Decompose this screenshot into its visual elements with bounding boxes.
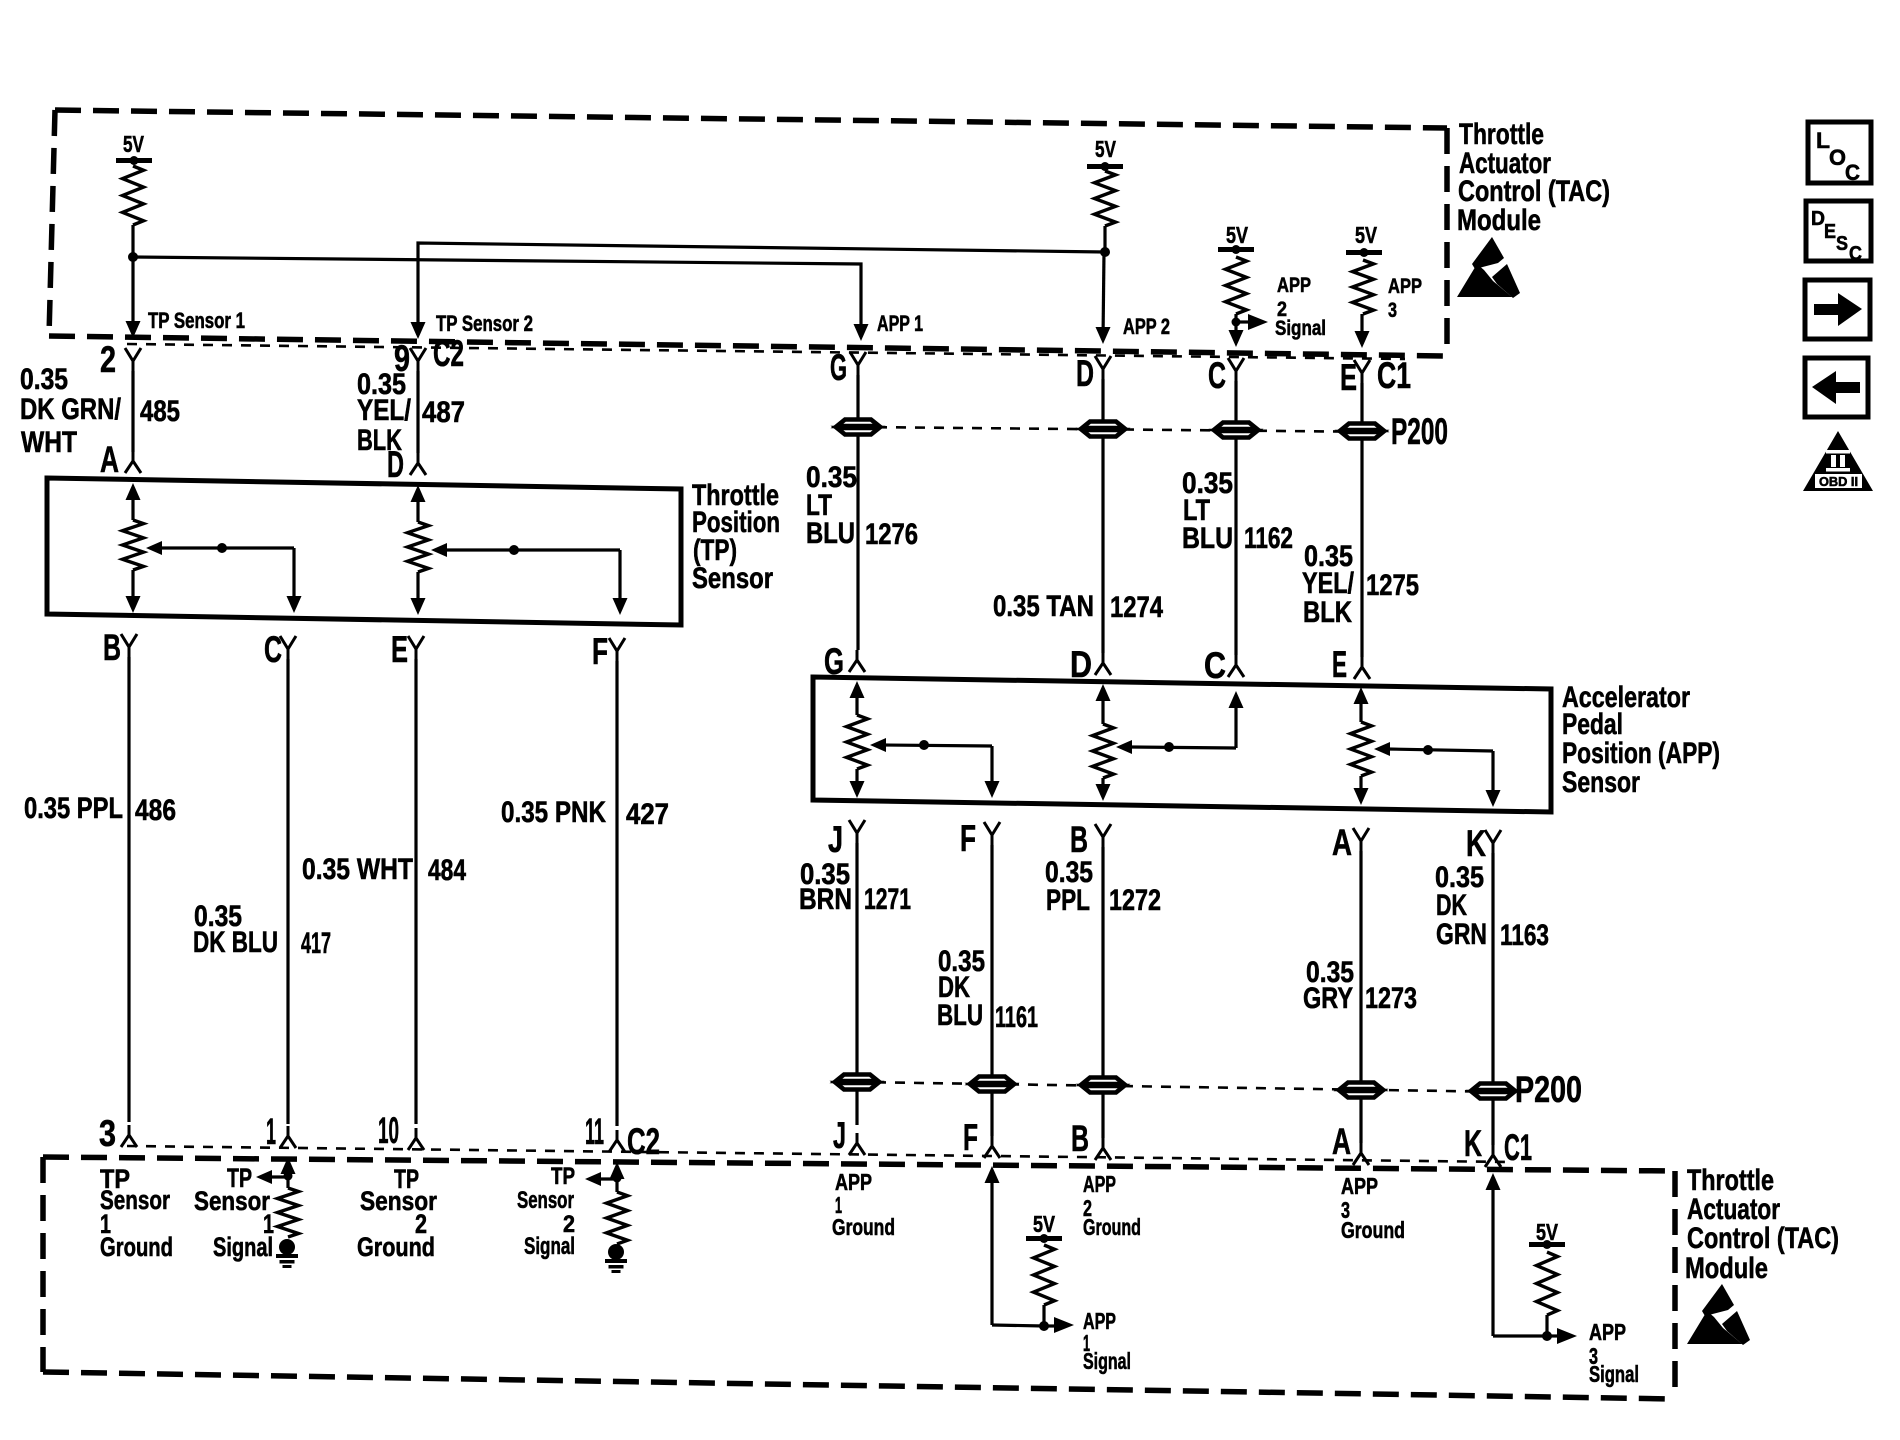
svg-text:Signal: Signal [1275, 317, 1326, 340]
pin G connector (APP box top) [824, 641, 865, 682]
svg-text:0.35 PNK: 0.35 PNK [501, 796, 606, 829]
svg-text:1272: 1272 [1109, 884, 1161, 917]
arrow into pin F (APP1 signal) [985, 1166, 1000, 1325]
svg-text:0.35 TAN: 0.35 TAN [993, 590, 1094, 623]
pin 11 connector (bottom) [585, 1111, 625, 1152]
wire junction to TP Sensor 1 output [131, 257, 134, 334]
svg-text:Module: Module [1685, 1252, 1768, 1285]
Throttle Position (TP) Sensor box [47, 478, 681, 625]
resistor TAC internal APP 1 signal [1034, 1245, 1055, 1305]
svg-text:Control (TAC): Control (TAC) [1687, 1222, 1839, 1255]
svg-text:485: 485 [140, 395, 180, 428]
wire pin E to P200 [1360, 383, 1363, 424]
ESD sensitivity symbol (top module) [1457, 237, 1520, 298]
wiper TP sensor 1 (to C) [146, 541, 302, 613]
resistor TAC internal TP sensor 2 signal [607, 1192, 628, 1244]
label wire 0.35 YEL/BLK [357, 368, 412, 457]
svg-text:OBD II: OBD II [1819, 474, 1858, 489]
arrow APP 2 signal into connector [1229, 330, 1244, 347]
label TP Sensor 2 Signal [517, 1163, 575, 1260]
label wire 0.35 LT BLU (C) [1182, 467, 1233, 555]
svg-text:Ground: Ground [100, 1232, 173, 1262]
svg-text:487: 487 [422, 396, 465, 429]
arrow to TP Sensor 2 Signal label [585, 1172, 617, 1186]
arrow to APP 1 Signal label [1044, 1317, 1074, 1333]
wire APP1 signal to junction [992, 1325, 1044, 1326]
pin 9 connector (TP sensor 2) [394, 338, 426, 379]
svg-text:A: A [1332, 822, 1352, 863]
junction TP1 signal [284, 1172, 293, 1181]
wire APP3 into connector [1360, 314, 1363, 344]
svg-text:1161: 1161 [995, 1001, 1038, 1034]
pin F connector (bottom) [963, 1117, 1000, 1158]
icon DESC box [1806, 201, 1871, 265]
svg-text:APP: APP [1341, 1173, 1378, 1199]
pin E connector (APP box top) [1332, 644, 1370, 685]
wiper APP 3 (to K) [1374, 742, 1501, 807]
label wire 0.35 DK GRN [1435, 861, 1487, 951]
wire pin G to P200 [856, 375, 859, 420]
label Throttle Position (TP) Sensor [692, 479, 780, 595]
svg-text:C: C [1849, 243, 1862, 265]
wire APP3 signal to junction [1493, 1334, 1547, 1337]
P200 pass-through (APP2 D) [1082, 422, 1124, 429]
svg-text:A: A [1332, 1121, 1351, 1162]
label wire 0.35 DK BLU (F) [937, 945, 985, 1032]
arrow APP 3 into connector [1355, 331, 1370, 348]
wire TP C to pin 1 [286, 659, 289, 1124]
svg-text:1162: 1162 [1244, 522, 1293, 555]
5V supply (TP sensor 2 / APP 2 feed) [1087, 136, 1123, 171]
svg-text:C: C [1204, 645, 1226, 686]
wire resistor to APP3 signal junction [1545, 1315, 1548, 1336]
svg-text:S: S [1836, 233, 1848, 255]
svg-text:1273: 1273 [1365, 982, 1417, 1015]
potentiometer APP 3 (E-A) [1351, 687, 1372, 805]
svg-text:Sensor: Sensor [194, 1186, 270, 1216]
svg-text:GRN: GRN [1436, 918, 1487, 951]
wire TP E to pin 10 [414, 659, 417, 1124]
ground (TP sensor 1 signal) [279, 1239, 295, 1255]
svg-text:0.35 PPL: 0.35 PPL [24, 792, 123, 825]
5V supply (APP 2 signal) [1218, 222, 1254, 254]
wire pin2 to TP pin A [131, 371, 134, 452]
svg-text:APP: APP [1589, 1319, 1626, 1345]
ESD sensitivity symbol (bottom module) [1687, 1284, 1750, 1345]
label APP 3 Signal [1589, 1319, 1639, 1387]
label Accelerator Pedal Position (APP) Sensor [1562, 681, 1720, 799]
pin J connector (APP box bottom) [828, 819, 865, 860]
P200 pass-through (APP2 sig C) [1215, 423, 1257, 430]
wire APP B to P200 [1101, 847, 1104, 1077]
label APP 1 Signal [1083, 1308, 1131, 1374]
junction APP1 signal [1039, 1321, 1049, 1331]
label APP 3 [1388, 275, 1422, 322]
pin 10 connector (bottom) [378, 1110, 424, 1151]
svg-text:Ground: Ground [1341, 1217, 1405, 1243]
svg-text:C: C [1845, 160, 1860, 185]
connector P200 dashed line (bottom) [857, 1082, 1512, 1092]
icon back arrow box [1805, 358, 1868, 417]
label Throttle Actuator Control (TAC) Module (top) [1457, 118, 1610, 237]
pin C connector (TP sensor) [264, 629, 296, 670]
label wire 0.35 PPL (B) [1045, 856, 1093, 917]
wire APP K to P200 [1491, 853, 1494, 1083]
pin D connector (TP sensor top) [387, 444, 426, 485]
resistor TAC internal pull-up TP/APP 2 [1095, 171, 1116, 226]
label TP Sensor 2 Ground [357, 1164, 437, 1262]
pin B connector (TP sensor) [103, 627, 137, 668]
svg-text:WHT: WHT [21, 426, 77, 459]
potentiometer TP sensor 1 (A-B) [123, 483, 144, 613]
svg-text:11: 11 [585, 1111, 604, 1152]
label wire 0.35 DK BLU [193, 900, 278, 959]
svg-text:GRY: GRY [1303, 982, 1353, 1015]
wire resistor to APP1 signal junction [1042, 1305, 1045, 1326]
wire TP B to pin 3 [127, 657, 130, 1122]
svg-text:5V: 5V [1033, 1211, 1056, 1237]
svg-text:Ground: Ground [1083, 1214, 1141, 1240]
5V supply (APP 3 signal, bottom) [1529, 1219, 1565, 1249]
5V supply (TP sensor 1 feed) [116, 131, 152, 165]
label APP 3 Ground [1341, 1173, 1405, 1243]
svg-text:Signal: Signal [524, 1233, 575, 1260]
svg-text:E: E [391, 629, 408, 670]
wire junction to APP 2 output [1103, 252, 1104, 340]
svg-text:0.35: 0.35 [20, 363, 68, 396]
icon forward arrow box [1805, 280, 1870, 339]
svg-text:417: 417 [301, 927, 331, 960]
arrow APP 1 into connector [854, 324, 869, 341]
svg-text:E: E [1824, 221, 1836, 243]
label wire 0.35 GRY [1303, 956, 1354, 1015]
svg-text:A: A [100, 439, 119, 480]
P200 pass-through (APP1 G) [837, 420, 879, 427]
svg-text:Signal: Signal [1083, 1348, 1131, 1374]
resistor TAC internal APP 3 signal [1353, 260, 1374, 314]
svg-text:C1: C1 [1377, 355, 1411, 396]
svg-text:B: B [1071, 1118, 1089, 1159]
svg-text:F: F [963, 1117, 978, 1158]
pin A connector (bottom) [1332, 1121, 1369, 1165]
wire APP F to P200 [990, 845, 993, 1076]
wire P200 to pin K [1491, 1099, 1494, 1145]
P200 pass-through (K) [1472, 1084, 1514, 1091]
wire 5V-1 to junction [131, 225, 134, 257]
svg-text:427: 427 [626, 798, 669, 831]
pin B connector (bottom) [1071, 1118, 1111, 1160]
pin C connector (APP box top) [1204, 645, 1244, 686]
potentiometer APP 1 (G-J) [847, 681, 868, 798]
TAC module bottom dashed box [43, 1157, 1675, 1399]
wire P200 to pin B [1101, 1093, 1104, 1138]
junction TP2 signal [613, 1174, 622, 1183]
resistor TAC internal TP sensor 1 signal [278, 1188, 299, 1237]
pin 3 connector (bottom) [99, 1113, 137, 1154]
arrow to TP Sensor 1 Signal label [256, 1170, 288, 1184]
TAC module top dashed box (Throttle Actuator Control) [49, 110, 1447, 356]
pin K connector (APP box bottom) [1466, 823, 1501, 864]
svg-text:1163: 1163 [1500, 919, 1549, 952]
svg-text:TP: TP [551, 1163, 575, 1190]
resistor TAC internal pull-up TP sensor 1 [123, 166, 144, 225]
wire P200 to pin A [1359, 1098, 1362, 1143]
pin B connector (APP box bottom) [1070, 819, 1111, 860]
svg-text:Ground: Ground [357, 1232, 435, 1262]
svg-text:Sensor: Sensor [517, 1187, 574, 1214]
svg-text:2: 2 [100, 339, 116, 380]
label Throttle Actuator Control (TAC) Module (bottom) [1685, 1164, 1839, 1285]
svg-text:3: 3 [99, 1113, 116, 1154]
svg-text:Module: Module [1457, 204, 1541, 237]
junction APP2 signal [1232, 318, 1241, 327]
svg-text:K: K [1466, 823, 1486, 864]
wire P200 to pin J [855, 1090, 858, 1125]
wire P200 to APP pin C [1234, 438, 1237, 655]
svg-text:APP: APP [1277, 274, 1311, 297]
wire TP F to pin 11 [615, 661, 618, 1126]
wire 5V bus to TP sensor 2 (horizontal) [418, 243, 1105, 335]
svg-text:BLU: BLU [806, 517, 855, 550]
P200 pass-through (APP3 E) [1341, 424, 1383, 431]
potentiometer TP sensor 2 (D-E) [408, 485, 429, 615]
svg-text:O: O [1829, 145, 1846, 170]
label wire 0.35 BRN [799, 858, 852, 916]
arrow to APP 2 Signal label [1236, 314, 1268, 330]
svg-text:C2: C2 [627, 1121, 660, 1162]
wiper APP 1 (to F) [870, 738, 1000, 798]
svg-text:G: G [824, 641, 844, 682]
svg-text:1: 1 [266, 1111, 276, 1152]
svg-text:DK GRN/: DK GRN/ [20, 393, 122, 426]
svg-text:PPL: PPL [1046, 884, 1090, 917]
pin J connector (bottom) [833, 1115, 865, 1156]
resistor TAC internal APP 2 signal [1226, 257, 1247, 314]
wire P200 to APP pin G [856, 435, 859, 650]
svg-text:APP: APP [1083, 1171, 1116, 1197]
svg-text:Signal: Signal [213, 1232, 273, 1262]
svg-text:F: F [592, 631, 608, 672]
svg-text:B: B [1070, 819, 1088, 860]
svg-text:BRN: BRN [799, 883, 852, 916]
svg-text:E: E [1332, 644, 1347, 685]
pin F connector (TP sensor) [592, 631, 625, 672]
svg-text:5V: 5V [1226, 222, 1249, 248]
svg-text:J: J [828, 819, 843, 860]
wire P200 to APP pin E [1360, 439, 1363, 657]
label APP 1 Ground [832, 1169, 895, 1240]
svg-text:5V: 5V [123, 131, 144, 157]
junction APP3 signal [1542, 1331, 1552, 1341]
svg-text:5V: 5V [1355, 222, 1378, 248]
P200 pass-through (F) [971, 1077, 1013, 1084]
svg-text:YEL/: YEL/ [357, 394, 412, 427]
svg-text:Sensor: Sensor [1562, 766, 1640, 799]
svg-text:10: 10 [378, 1110, 399, 1151]
arrow into pin K (APP3 signal) [1486, 1173, 1501, 1336]
arrow to APP 3 Signal label [1547, 1328, 1577, 1344]
svg-text:0.35 WHT: 0.35 WHT [302, 853, 413, 886]
svg-text:Ground: Ground [832, 1214, 895, 1240]
svg-text:486: 486 [135, 794, 176, 827]
wire pin D to P200 [1101, 379, 1104, 422]
potentiometer APP 2 (D-B) [1093, 684, 1114, 801]
svg-text:C: C [1208, 355, 1226, 396]
svg-text:L: L [1816, 128, 1830, 153]
label APP 2 Signal [1275, 274, 1326, 340]
wiper APP 2 (to C) [1116, 691, 1244, 754]
pin A connector (APP box bottom) [1332, 822, 1369, 863]
svg-text:P200: P200 [1515, 1069, 1582, 1110]
svg-text:P200: P200 [1391, 411, 1448, 452]
svg-text:APP 1: APP 1 [877, 311, 923, 336]
svg-text:TP Sensor 1: TP Sensor 1 [148, 308, 245, 333]
svg-text:BLK: BLK [1303, 596, 1352, 629]
P200 pass-through (A) [1340, 1083, 1382, 1090]
5V supply (APP 3 signal) [1346, 222, 1382, 257]
pin D connector (APP box top) [1070, 644, 1111, 685]
svg-text:DK BLU: DK BLU [193, 926, 278, 959]
pin C connector (TAC, APP2 signal) [1208, 355, 1244, 396]
svg-text:Sensor: Sensor [692, 562, 773, 595]
pin F connector (APP box bottom) [960, 818, 1000, 859]
svg-text:D: D [1070, 644, 1092, 685]
svg-text:3: 3 [1388, 299, 1397, 322]
wire APP J to P200 [855, 843, 858, 1074]
svg-text:D: D [387, 444, 404, 485]
svg-text:C1: C1 [1504, 1127, 1532, 1168]
svg-text:APP 2: APP 2 [1123, 314, 1170, 339]
pin E connector (TP sensor) [391, 629, 424, 670]
pin 2 connector (TP sensor 1) [100, 339, 141, 380]
svg-text:K: K [1464, 1123, 1482, 1164]
resistor TAC internal APP 3 signal [1537, 1252, 1558, 1315]
svg-text:D: D [1076, 353, 1094, 394]
pin G connector (TAC, APP1) [830, 347, 866, 388]
svg-text:484: 484 [428, 854, 466, 887]
icon OBD II triangle [1803, 431, 1873, 491]
svg-text:J: J [833, 1115, 846, 1156]
svg-text:1275: 1275 [1366, 569, 1419, 602]
pin K connector (bottom) [1464, 1123, 1501, 1167]
pin D connector (TAC, APP2) [1076, 353, 1111, 394]
Accelerator Pedal Position (APP) Sensor box [813, 677, 1551, 812]
svg-text:D: D [1811, 208, 1825, 230]
svg-text:BLU: BLU [1182, 522, 1233, 555]
svg-text:B: B [103, 627, 121, 668]
arrow into pin 11 (TP sensor 2 signal) [610, 1162, 625, 1192]
svg-text:1276: 1276 [865, 518, 918, 551]
wire pin C to P200 [1234, 381, 1237, 423]
pin E connector (TAC, APP3) [1340, 357, 1370, 398]
wire P200 to APP pin D [1101, 437, 1104, 653]
svg-text:APP: APP [1388, 275, 1422, 298]
svg-text:1274: 1274 [1110, 591, 1163, 624]
wire P200 to pin F [990, 1092, 993, 1136]
svg-text:Signal: Signal [1589, 1361, 1639, 1387]
svg-text:G: G [830, 347, 847, 388]
icon LOC box [1808, 122, 1871, 185]
label wire 0.35 YEL/BLK (E) [1302, 540, 1355, 629]
pin A connector (TP sensor) [100, 439, 141, 480]
5V supply (APP 1 signal, bottom) [1026, 1211, 1062, 1243]
wire pin9 to TP pin D [416, 371, 419, 453]
wire 5V-2 down to junction [1103, 226, 1106, 252]
label APP 2 Ground [1083, 1171, 1141, 1240]
arrow TP Sensor 1 into connector [126, 321, 141, 338]
pin 1 connector (bottom) [266, 1111, 296, 1152]
P200 pass-through (B) [1082, 1078, 1124, 1085]
svg-text:BLU: BLU [937, 999, 983, 1032]
connector line C1/C2 (thin dashed, top) [127, 344, 1405, 359]
label TP Sensor 1 Signal [194, 1163, 274, 1262]
arrow TP Sensor 2 into connector [411, 322, 426, 339]
arrow into pin 1 (TP sensor 1 signal) [281, 1157, 296, 1188]
junction node 5V TP2/APP2 [1100, 247, 1110, 257]
svg-text:C2: C2 [433, 333, 464, 374]
label wire 0.35 LT BLU (G) [806, 461, 857, 550]
ground (TP sensor 2 signal) [608, 1244, 624, 1260]
svg-text:5V: 5V [1095, 136, 1116, 162]
connector line C1/C2 (thin dashed, bottom) [127, 1146, 1510, 1162]
svg-text:1271: 1271 [864, 883, 911, 916]
junction node 5V TP1/APP1 [128, 252, 138, 262]
label wire 0.35 DK GRN/WHT [20, 363, 122, 459]
label TP Sensor 1 Ground [100, 1164, 173, 1262]
wire APP A to P200 [1359, 851, 1362, 1082]
P200 pass-through (J) [836, 1075, 878, 1082]
arrow APP 2 into connector [1096, 327, 1111, 344]
wire 5V bus to APP 1 (horizontal) [133, 257, 861, 337]
wire APP2 signal into connector [1234, 322, 1237, 343]
svg-text:C: C [264, 629, 282, 670]
connector P200 dashed line (top) [858, 427, 1388, 432]
svg-text:F: F [960, 818, 976, 859]
wiper TP sensor 2 (to F) [431, 543, 628, 615]
wire resistor to APP2 signal junction [1234, 314, 1237, 322]
